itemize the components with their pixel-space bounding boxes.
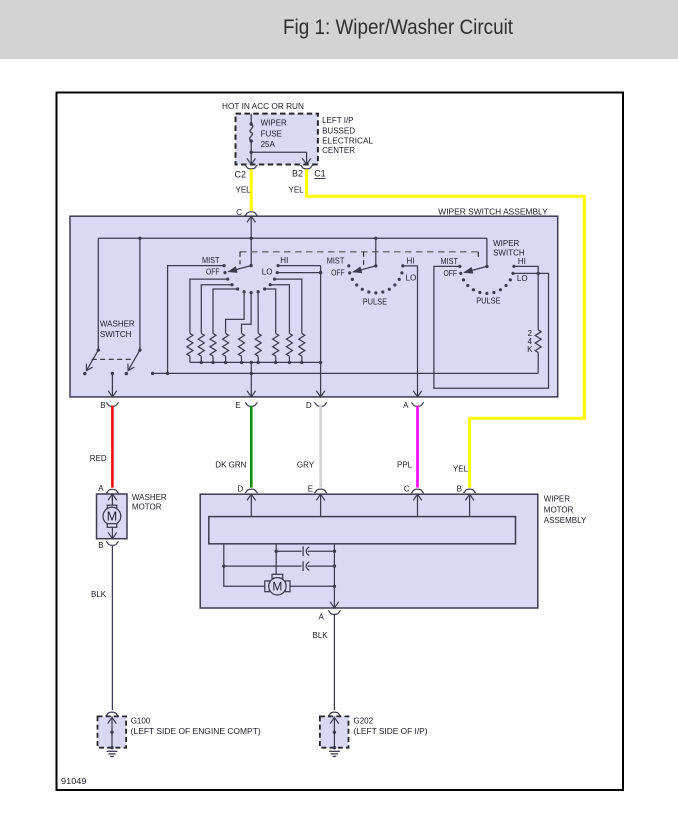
- wire motor right: [290, 585, 335, 587]
- wire: [469, 494, 471, 516]
- connector washer A: [106, 489, 118, 493]
- svg-text:MIST: MIST: [327, 256, 345, 265]
- svg-text:WASHER: WASHER: [100, 320, 135, 329]
- entry arrow: [330, 717, 339, 723]
- lower return bus: [153, 372, 539, 374]
- svg-text:25A: 25A: [261, 140, 276, 149]
- wire: [111, 716, 113, 747]
- node: [275, 550, 278, 553]
- wire RED: [111, 406, 114, 488]
- wiper motor assembly box: [200, 494, 538, 608]
- resistor ladder R1: [187, 333, 193, 356]
- wire BLK to G100: [111, 546, 113, 710]
- node: [151, 372, 154, 375]
- svg-text:LO: LO: [262, 268, 273, 277]
- node: [333, 564, 336, 567]
- node: [333, 746, 336, 749]
- wire DK GRN: [250, 406, 253, 488]
- entry arrow D: [247, 494, 256, 500]
- wire cap2 right: [308, 565, 335, 567]
- svg-text:LEFT I/P: LEFT I/P: [322, 116, 353, 125]
- header bar: [0, 0, 678, 59]
- svg-text:OFF: OFF: [331, 269, 345, 278]
- svg-text:A: A: [98, 484, 104, 493]
- svg-text:B: B: [98, 541, 103, 550]
- svg-text:YEL: YEL: [236, 186, 252, 195]
- node: [240, 361, 243, 364]
- left I/P bussed electrical center (dashed box): [236, 114, 318, 165]
- svg-text:A: A: [319, 613, 325, 622]
- node: [138, 348, 141, 351]
- node: [138, 237, 141, 240]
- washer motor M1: [103, 505, 121, 527]
- label WIPER SWITCH: [493, 239, 525, 258]
- svg-text:MIST: MIST: [441, 257, 459, 266]
- node: [333, 585, 336, 588]
- label WIPER MOTOR ASSEMBLY: [544, 494, 587, 525]
- connector E: [245, 402, 257, 406]
- wire S2 pivot feed: [375, 238, 377, 266]
- capacitor C1: [302, 546, 304, 556]
- svg-text:G202: G202: [354, 717, 374, 726]
- ground G100 (dashed box): [98, 716, 127, 747]
- washer motor box: [97, 494, 128, 539]
- contact: [83, 372, 86, 375]
- label C1 (underlined): [314, 169, 326, 179]
- svg-text:CENTER: CENTER: [322, 146, 355, 155]
- svg-text:C: C: [236, 208, 242, 217]
- node: [222, 564, 225, 567]
- connector washer B: [106, 541, 118, 545]
- ground symbol: [107, 751, 118, 756]
- wire YEL B2 to wiper motor B (long run): [307, 169, 585, 487]
- connector ground: [328, 712, 340, 716]
- wiper switch assembly box: [70, 216, 558, 397]
- svg-text:GRY: GRY: [297, 461, 315, 470]
- svg-text:WIPER: WIPER: [493, 239, 519, 248]
- node: [250, 372, 253, 375]
- wire: [250, 494, 252, 516]
- node: [110, 746, 113, 749]
- resistor ladder R8: [286, 333, 292, 356]
- washer output contact: [111, 372, 114, 375]
- svg-text:PULSE: PULSE: [363, 297, 387, 306]
- wire motor top branch: [275, 544, 277, 578]
- wire S3 MIST loop: [434, 266, 549, 388]
- svg-text:C1: C1: [314, 169, 326, 179]
- svg-text:BLK: BLK: [91, 590, 107, 599]
- svg-text:SWITCH: SWITCH: [100, 330, 132, 339]
- wire S1 contact to R2: [201, 285, 232, 334]
- wire YEL C2 to C: [250, 169, 253, 211]
- linkage drop S3: [477, 252, 479, 261]
- svg-text:HI: HI: [518, 257, 526, 266]
- svg-text:G100: G100: [131, 717, 151, 726]
- wire S1 MIST to bus: [168, 266, 225, 374]
- svg-text:FUSE: FUSE: [261, 129, 282, 138]
- node: [250, 361, 253, 364]
- entry arrow: [108, 494, 117, 500]
- wire left branch: [224, 544, 269, 587]
- wire S1 HI to D: [278, 265, 321, 267]
- ground G202 (dashed box): [320, 716, 349, 747]
- wire S3 pivot feed: [486, 238, 488, 266]
- switch blade S3: [464, 265, 488, 274]
- control module (inner box): [209, 517, 516, 544]
- wire: [417, 494, 419, 516]
- wire branch to B2: [251, 151, 306, 153]
- node: [257, 361, 260, 364]
- connector ground: [106, 712, 118, 716]
- switch blade S1: [228, 264, 252, 273]
- entry arrow B: [465, 494, 474, 500]
- resistor bottom bus: [190, 361, 321, 363]
- svg-text:Fig 1: Wiper/Washer Circuit: Fig 1: Wiper/Washer Circuit: [283, 15, 513, 39]
- switch blade S2: [353, 264, 377, 273]
- entry arrow C: [413, 494, 422, 500]
- wire: [320, 494, 322, 516]
- wire washer output to B exit: [111, 373, 113, 397]
- svg-text:BLK: BLK: [313, 631, 329, 640]
- svg-text:MOTOR: MOTOR: [544, 505, 574, 514]
- connector B: [106, 402, 118, 406]
- wire S1 contact to R3: [213, 289, 238, 333]
- connector A: [411, 402, 423, 406]
- wire D exit vertical: [320, 266, 322, 397]
- node: [300, 361, 303, 364]
- linkage drop S2: [363, 252, 365, 265]
- wire E exit vertical: [250, 362, 252, 397]
- wire cap2 left: [224, 565, 302, 567]
- resistor ladder R3: [210, 333, 216, 356]
- svg-text:B2: B2: [292, 169, 303, 179]
- svg-text:D: D: [306, 401, 312, 410]
- svg-text:YEL: YEL: [289, 186, 305, 195]
- capacitor C2: [302, 561, 304, 571]
- svg-text:M: M: [107, 510, 117, 524]
- wire S1 contact to R5: [242, 293, 252, 334]
- wire: [333, 716, 335, 747]
- svg-text:(LEFT SIDE OF ENGINE COMPT): (LEFT SIDE OF ENGINE COMPT): [131, 727, 261, 736]
- wire S2 HI to A exit: [403, 266, 418, 397]
- connector B2: [300, 165, 312, 169]
- border frame: [57, 93, 624, 791]
- svg-text:LO: LO: [406, 273, 417, 282]
- svg-text:B: B: [100, 401, 105, 410]
- connector C: [411, 489, 423, 493]
- node: [97, 348, 100, 351]
- connector C2: [245, 165, 257, 169]
- wire to B2 exit: [306, 152, 308, 164]
- node: [200, 361, 203, 364]
- node: [333, 550, 336, 553]
- internal top bus: [98, 237, 487, 239]
- label WASHER SWITCH: [100, 320, 135, 339]
- wire: [111, 527, 113, 538]
- svg-text:PPL: PPL: [397, 461, 413, 470]
- label 2 4 K: [527, 329, 533, 354]
- resistor ladder R9: [299, 333, 305, 356]
- label LEFT I/P BUSSED ELECTRICAL CENTER: [322, 116, 374, 155]
- svg-text:ASSEMBLY: ASSEMBLY: [544, 516, 587, 525]
- ground symbol: [329, 751, 340, 756]
- node: [537, 272, 540, 275]
- wire S1 contact to R6: [257, 292, 259, 334]
- wire S1 contact to R4: [226, 292, 245, 334]
- wiper motor M2: [265, 574, 290, 595]
- wire BLK to G202: [333, 615, 335, 711]
- wire cap1 right: [308, 550, 335, 552]
- node: [274, 361, 277, 364]
- svg-text:B: B: [457, 484, 462, 493]
- wire (fuse feed): [250, 114, 252, 124]
- wiper switch S2 contacts: [347, 264, 404, 294]
- resistor ladder R4: [223, 333, 229, 356]
- wire GRY: [319, 406, 322, 488]
- svg-text:C: C: [404, 484, 410, 493]
- connector E: [314, 489, 326, 493]
- label WIPER FUSE 25A: [261, 119, 287, 150]
- node: [319, 361, 322, 364]
- svg-text:91049: 91049: [61, 777, 87, 786]
- resistor ladder R5: [239, 333, 245, 356]
- wire cap1 left: [276, 550, 301, 552]
- washer switch blade left: [87, 350, 99, 371]
- svg-text:OFF: OFF: [206, 268, 220, 277]
- node fuse branch: [250, 151, 253, 154]
- wiper fuse 25A (fuse element): [250, 124, 253, 141]
- wiper switch S1 contacts: [223, 264, 280, 294]
- wire S1 contact to R8: [270, 285, 289, 334]
- svg-text:WASHER: WASHER: [132, 493, 167, 502]
- svg-text:E: E: [235, 401, 240, 410]
- wire to C2 exit: [250, 152, 252, 164]
- entry arrow C: [247, 216, 256, 222]
- entry arrow: [108, 717, 117, 723]
- resistor ladder R7: [273, 333, 279, 356]
- node fuse bottom: [250, 139, 253, 142]
- label WASHER MOTOR: [132, 493, 167, 512]
- svg-text:DK GRN: DK GRN: [215, 461, 246, 470]
- svg-text:ELECTRICAL: ELECTRICAL: [322, 137, 374, 146]
- svg-text:WIPER: WIPER: [544, 494, 570, 503]
- svg-text:YEL: YEL: [453, 465, 469, 474]
- wire right branch / A out: [333, 544, 335, 608]
- svg-text:RED: RED: [90, 454, 107, 463]
- node: [374, 237, 377, 240]
- node: [250, 237, 253, 240]
- svg-text:OFF: OFF: [444, 269, 458, 278]
- svg-text:HI: HI: [407, 257, 415, 266]
- resistor ladder R2: [198, 333, 204, 356]
- wiper switch S3 contacts: [458, 265, 515, 295]
- entry arrow E: [316, 494, 325, 500]
- wire S3 HI to 24K: [514, 266, 538, 329]
- wire: [111, 494, 113, 507]
- wire S1 LO join: [277, 272, 320, 274]
- svg-text:M: M: [272, 580, 282, 594]
- svg-text:MOTOR: MOTOR: [132, 503, 162, 512]
- node: [288, 361, 291, 364]
- node: [110, 731, 113, 734]
- linkage drop S1: [239, 252, 241, 264]
- resistor ladder R6: [255, 333, 261, 356]
- wire S1 contact to R9: [275, 279, 302, 333]
- node: [224, 361, 227, 364]
- connector D: [314, 402, 326, 406]
- svg-text:WIPER: WIPER: [261, 119, 287, 128]
- svg-text:LO: LO: [517, 274, 528, 283]
- svg-text:C2: C2: [235, 170, 247, 180]
- svg-text:HOT IN ACC OR RUN: HOT IN ACC OR RUN: [222, 102, 304, 111]
- wire S1 contact to R1: [190, 279, 228, 333]
- washer switch linkage (dashed): [92, 358, 135, 360]
- node: [333, 731, 336, 734]
- svg-text:WIPER SWITCH ASSEMBLY: WIPER SWITCH ASSEMBLY: [438, 207, 548, 216]
- wire: [250, 141, 252, 152]
- wire washer right: [139, 238, 141, 350]
- svg-text:A: A: [403, 401, 409, 410]
- wire PPL: [416, 406, 419, 488]
- connector C: [245, 212, 257, 216]
- wire washer left: [97, 238, 99, 350]
- node: [166, 372, 169, 375]
- connector D: [245, 489, 257, 493]
- wire C into bus: [250, 216, 252, 265]
- svg-text:E: E: [308, 484, 313, 493]
- connector A: [328, 611, 340, 615]
- node fuse top: [250, 122, 253, 125]
- wire S1 contact to R7: [265, 289, 276, 333]
- resistor 24K: [535, 330, 541, 353]
- svg-text:PULSE: PULSE: [476, 297, 500, 306]
- washer switch blade right: [128, 350, 140, 371]
- node: [319, 271, 322, 274]
- svg-text:HI: HI: [280, 256, 288, 265]
- switch linkage (dashed): [240, 251, 478, 253]
- svg-text:K: K: [527, 345, 533, 354]
- svg-text:MIST: MIST: [202, 256, 220, 265]
- svg-text:BUSSED: BUSSED: [322, 126, 355, 135]
- svg-text:(LEFT SIDE OF I/P): (LEFT SIDE OF I/P): [354, 727, 428, 736]
- node: [211, 361, 214, 364]
- svg-text:D: D: [238, 484, 244, 493]
- wire 24K to bus: [537, 353, 539, 374]
- connector B: [463, 489, 475, 493]
- contact: [125, 372, 128, 375]
